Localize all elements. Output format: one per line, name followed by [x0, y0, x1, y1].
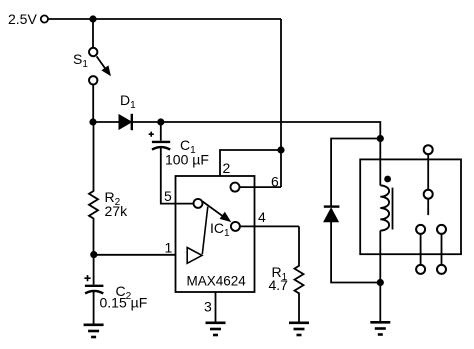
node: relay top junction	[377, 135, 384, 142]
node: relay bottom junction	[377, 279, 384, 286]
capacitor C2	[84, 255, 103, 294]
svg-text:4.7: 4.7	[269, 277, 289, 293]
wire: C1 bottom to pin 5	[161, 148, 194, 204]
label R2	[105, 189, 121, 208]
svg-text:IC1: IC1	[210, 220, 230, 239]
relay contact blade	[427, 199, 429, 216]
svg-text:4: 4	[258, 209, 266, 225]
svg-text:2: 2	[223, 160, 231, 176]
pin 1 label	[165, 239, 173, 255]
label R1 value	[269, 277, 289, 293]
wire: supply rail down to pin 6	[280, 19, 282, 187]
relay coil	[380, 176, 392, 231]
ground: R1	[289, 323, 309, 335]
flyback diode	[324, 207, 340, 222]
label R1	[272, 264, 288, 283]
node: D1 anode junction	[89, 118, 96, 125]
svg-text:S1: S1	[73, 51, 88, 70]
relay contact pole	[424, 190, 433, 199]
wire: D1 to C1 node	[132, 121, 161, 123]
label D1	[120, 92, 136, 111]
wire: S1 to D1 node	[92, 85, 94, 122]
ground: pin 3	[206, 323, 226, 335]
label C2	[116, 283, 132, 302]
node: C1 top junction	[157, 118, 164, 125]
pin 4	[231, 222, 299, 231]
pin 6 label	[271, 173, 279, 189]
capacitor C1	[149, 122, 171, 150]
svg-text:27k: 27k	[105, 203, 129, 219]
pin 5 label	[164, 188, 172, 204]
pin 3 label	[204, 299, 212, 315]
label MAX4624	[187, 274, 247, 289]
pin 4 label	[258, 209, 266, 225]
node: pin1/C2 junction	[90, 251, 97, 258]
svg-text:5: 5	[164, 188, 172, 204]
svg-text:3: 3	[204, 299, 212, 315]
wire: flyback diode bottom	[331, 222, 380, 283]
svg-text:0.15 µF: 0.15 µF	[100, 295, 148, 311]
node: pin2/pin6 supply junction	[277, 146, 284, 153]
svg-text:1: 1	[165, 239, 173, 255]
diode D1	[119, 114, 132, 130]
relay contact NC	[437, 225, 446, 234]
label IC1	[210, 220, 230, 239]
wire: pin 2 to supply	[220, 150, 281, 176]
ground: relay	[370, 322, 390, 334]
relay box	[360, 159, 461, 254]
relay terminal B	[437, 265, 446, 274]
switch arm IC1	[202, 202, 230, 255]
switch S1	[89, 48, 110, 85]
wire: node to D1	[93, 121, 119, 123]
wire: pin 3 to ground	[215, 292, 217, 322]
wire: 2.5V rail	[48, 18, 281, 20]
label C1	[180, 137, 196, 156]
relay terminal A	[416, 265, 425, 274]
svg-text:100 µF: 100 µF	[165, 151, 209, 167]
resistor R2	[89, 122, 98, 255]
relay contact pole wire	[427, 154, 429, 190]
IC U1 MAX4624 box	[176, 176, 255, 292]
label 2.5V	[8, 11, 37, 27]
buffer amp	[187, 248, 202, 264]
svg-text:6: 6	[271, 173, 279, 189]
wire: relay bottom to ground	[379, 283, 381, 322]
label C2 value	[100, 295, 148, 311]
pin 5	[194, 199, 203, 208]
wire: node to pin 1	[94, 254, 176, 256]
wire: flyback diode top	[331, 139, 380, 206]
terminal 2.5V	[41, 15, 48, 22]
pin 6	[231, 183, 282, 192]
svg-text:D1: D1	[120, 92, 136, 111]
label C1 value	[165, 151, 209, 167]
wire: C1 node to relay node	[161, 122, 380, 135]
svg-text:MAX4624: MAX4624	[187, 274, 247, 289]
wire: coil line	[379, 139, 381, 283]
relay contact pole terminal	[424, 145, 433, 154]
label S1	[73, 51, 88, 70]
wire: C2 to ground	[93, 292, 95, 324]
pin 2 label	[223, 160, 231, 176]
node: supply junction	[89, 15, 96, 22]
wire: junction to S1	[92, 19, 94, 48]
ground: C2	[84, 325, 104, 337]
relay contact terminal wires	[421, 234, 442, 265]
resistor R1	[295, 226, 304, 322]
label R2 value	[105, 203, 129, 219]
svg-text:2.5V: 2.5V	[8, 11, 37, 27]
relay contact NO	[416, 225, 425, 234]
